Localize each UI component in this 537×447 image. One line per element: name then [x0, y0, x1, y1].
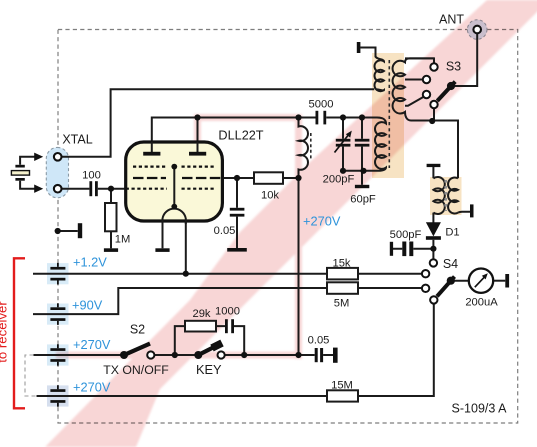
wire feedback winding to ground bar [360, 48, 375, 58]
switch S3 throw 1 [430, 63, 437, 70]
feedthrough capacitor [50, 307, 65, 310]
pink halo: +270V feed horizontal top [194, 114, 302, 121]
switch S2 lever [124, 344, 150, 355]
wire +1.2V bus to S4 [33, 273, 422, 275]
junction [295, 175, 301, 181]
wire grid cap to ground bar [236, 217, 238, 248]
switch S3 throw 3 [423, 91, 430, 98]
wire antenna winding tap2 [405, 79, 423, 81]
wire grid2 to 10k [222, 177, 254, 179]
capacitor 60pF [355, 139, 370, 142]
capacitor 100 [89, 181, 92, 196]
switch S4 wiper contact [430, 296, 437, 303]
junction [359, 114, 365, 120]
svg-text:S4: S4 [443, 257, 458, 271]
switch S3 wiper contact [430, 101, 437, 108]
tube anode left [143, 152, 160, 156]
feedback winding L1 [374, 56, 384, 91]
capacitor 0.05 bypass [315, 348, 318, 362]
feedthrough capacitor pad on chassis line [47, 344, 69, 365]
feedthrough capacitor pad on chassis line [47, 385, 69, 406]
wire S4 pole to meter [451, 280, 469, 282]
KEY knob [212, 343, 222, 348]
svg-text:5000: 5000 [309, 99, 334, 111]
junction [340, 114, 346, 120]
pink halo: +270V vertical [295, 114, 302, 359]
switch S2 contact [147, 351, 154, 358]
svg-text:+1.2V: +1.2V [73, 255, 107, 270]
wire filament left leg [162, 221, 164, 248]
svg-text:5M: 5M [334, 298, 350, 310]
switch S4 pole dot [447, 277, 455, 285]
wire 60pF bottom stem [361, 147, 363, 171]
svg-text:+270V: +270V [73, 380, 111, 395]
svg-text:XTAL: XTAL [62, 133, 92, 147]
junction [295, 114, 301, 120]
crystal bottom lead with arrow [20, 181, 35, 189]
terminal bar feedback winding [357, 42, 361, 53]
red receiver bracket [14, 258, 25, 408]
switch S4 throw 15k [422, 270, 429, 277]
switch S3 lever [437, 82, 455, 101]
capacitor 500pF [402, 242, 406, 257]
indicator transformer core dots [444, 180, 447, 211]
terminal bar chassis tap [78, 223, 82, 238]
wire ANT lead [454, 33, 477, 86]
junction [241, 352, 247, 358]
wire 60pF ground stem [361, 171, 363, 185]
terminal bar meter [505, 274, 509, 288]
resistor 15M [327, 390, 358, 401]
feedthrough capacitor pad on chassis line [47, 304, 69, 325]
resistor 5M [327, 282, 358, 294]
svg-text:ANT: ANT [439, 13, 464, 27]
wire filament right leg [185, 221, 187, 274]
wire XTAL top to feedback winding [61, 89, 374, 157]
wire chassis tap to terminal [58, 230, 78, 232]
capacitor 1000 [225, 319, 228, 333]
antenna winding L2 [393, 58, 434, 120]
junction [194, 114, 200, 120]
wire indicator winding top to bar [432, 167, 434, 178]
wire 500pF leads [393, 248, 433, 250]
svg-text:10k: 10k [261, 190, 279, 202]
wire right plate stem [197, 118, 199, 143]
capacitor 5000 [316, 111, 319, 125]
junction [55, 228, 61, 234]
svg-text:0.05: 0.05 [214, 225, 236, 237]
switch S3 pole dot [447, 82, 455, 90]
feedthrough capacitor pad on chassis line [47, 263, 69, 284]
terminal bar 0.05 bypass [333, 348, 338, 363]
switch S4 top throw [430, 259, 437, 266]
tube anode stems [152, 142, 198, 152]
wire indicator left winding to D1 [432, 213, 434, 223]
wire meter to terminal [493, 280, 505, 282]
KEY pole dot [194, 351, 202, 359]
wire antenna winding bottom to detector [411, 121, 458, 179]
feedthrough capacitor [50, 267, 65, 270]
plate RF choke [299, 118, 308, 178]
svg-text:15M: 15M [331, 380, 353, 392]
junction [108, 186, 114, 192]
terminal bar indicator secondary [470, 204, 474, 217]
junction [429, 118, 435, 124]
resistor 29k [185, 321, 216, 332]
wire 1M bottom stem [110, 231, 112, 248]
wire top node to RF choke [198, 117, 316, 119]
svg-text:60pF: 60pF [350, 194, 376, 206]
tan core box of indicator transformer [430, 177, 462, 215]
wire S3 wiper circle down [433, 108, 435, 121]
switch S4 lever [437, 277, 455, 297]
svg-text:100: 100 [82, 170, 101, 182]
ground bar 60pF [355, 185, 369, 188]
svg-text:+270V: +270V [73, 337, 111, 352]
indicator transformer primary [433, 177, 444, 214]
tank winding L3 [364, 118, 387, 171]
svg-text:DLL22T: DLL22T [218, 128, 263, 142]
svg-text:S3: S3 [446, 60, 461, 74]
tube anode right [189, 152, 206, 156]
wire junction to S4 top throw [432, 249, 434, 260]
feedthrough capacitor [50, 348, 65, 351]
wire 0.05 bypass to terminal [323, 354, 333, 356]
wire +270V low bus [37, 304, 434, 397]
KEY contact [218, 351, 225, 358]
svg-text:+270V: +270V [303, 214, 341, 229]
svg-text:0.05: 0.05 [308, 335, 330, 347]
wire left plate to top node [152, 118, 198, 143]
wire key filter branch [175, 326, 244, 355]
wire 5000 cap to tank top [326, 117, 377, 119]
pink halo: +270V bus row [56, 352, 302, 359]
wire antenna winding tap3 [405, 97, 424, 106]
svg-text:200pF: 200pF [323, 174, 355, 186]
svg-text:S-109/3 A: S-109/3 A [452, 402, 508, 416]
pink halo: plate stem [194, 114, 201, 145]
meter 200uA [469, 269, 493, 293]
capacitor 200pF variable [336, 139, 351, 142]
svg-text:1M: 1M [115, 234, 131, 246]
switch S3 throw 2 [423, 76, 430, 83]
wire +270V bus segments [34, 354, 315, 356]
tube center tie wire [173, 167, 175, 207]
XTAL terminal top [54, 153, 62, 161]
svg-text:500pF: 500pF [390, 229, 422, 241]
junction [295, 352, 301, 358]
XTAL socket blue pad [46, 147, 68, 197]
junction dot filament tie [171, 204, 177, 210]
tube filament arch [163, 209, 186, 224]
switch S2 pole dot [120, 351, 128, 359]
terminal bar 500pF [390, 242, 393, 256]
200pF trimmer arrow [335, 134, 350, 153]
wire XTAL bottom to grid capacitor [61, 188, 89, 190]
svg-text:1000: 1000 [215, 306, 240, 318]
svg-text:to receiver: to receiver [0, 301, 10, 363]
svg-text:TX ON/OFF: TX ON/OFF [103, 363, 169, 377]
svg-text:KEY: KEY [196, 362, 222, 377]
wire 200pF bottom stem [342, 147, 344, 171]
XTAL terminal bottom [54, 185, 62, 193]
junction [360, 168, 366, 174]
wire D1 cathode to junction [432, 240, 434, 249]
junction [430, 246, 436, 252]
tan core box of output transformer [372, 53, 404, 178]
svg-text:29k: 29k [192, 308, 210, 320]
tube grid row 1 [133, 166, 215, 168]
junction [172, 352, 178, 358]
feedthrough capacitor [50, 389, 65, 392]
ground bar 1M [104, 248, 118, 252]
resistor 1M [105, 203, 117, 231]
wire 100 cap to grid junction [98, 188, 126, 190]
wire 10k to +270V line [283, 177, 299, 179]
wire 60pF top stem [361, 118, 363, 139]
wire +90V bus with step [33, 288, 422, 314]
chassis dashed border [58, 30, 518, 424]
wire plate supply vertical [298, 178, 300, 355]
ground bar indicator transformer [427, 164, 441, 167]
wire tank bottom bus [343, 170, 364, 172]
junction dot grid1 tie [171, 164, 177, 170]
wire antenna winding top tap [405, 58, 434, 63]
ANT terminal [473, 26, 481, 34]
crystal element [15, 165, 24, 168]
svg-text:+90V: +90V [72, 298, 103, 313]
wire 200pF top stem [342, 118, 344, 139]
indicator transformer secondary [448, 177, 458, 213]
output transformer core line [388, 60, 390, 168]
resistor 10k [254, 172, 283, 184]
KEY lever [198, 345, 218, 355]
junction [340, 168, 346, 174]
diode D1 [426, 222, 441, 236]
junction [234, 175, 240, 181]
svg-text:15k: 15k [332, 258, 350, 270]
tube DLL22T envelope [126, 142, 223, 221]
wire 1M top stem [110, 189, 112, 203]
wire indicator winding bottom right [458, 211, 470, 214]
dashed jumper linking both +270V lines outside chassis [25, 355, 37, 396]
RF choke adjustable core [310, 133, 312, 159]
svg-text:D1: D1 [445, 227, 459, 239]
capacitor 0.05 grid [230, 208, 245, 211]
ground bar grid cap [227, 248, 247, 252]
resistor 15k [327, 268, 358, 280]
tube grid row 3 [126, 188, 215, 190]
svg-text:S2: S2 [130, 323, 145, 337]
ground bar filament [155, 248, 169, 252]
junction [183, 271, 189, 277]
crystal top lead with arrow [20, 157, 35, 165]
svg-text:200uA: 200uA [465, 297, 498, 309]
wire grid cap stem [236, 178, 238, 208]
ANT terminal blue pad [467, 20, 487, 40]
tube grid row 2 [133, 177, 222, 179]
switch S4 throw 5M [422, 285, 429, 292]
